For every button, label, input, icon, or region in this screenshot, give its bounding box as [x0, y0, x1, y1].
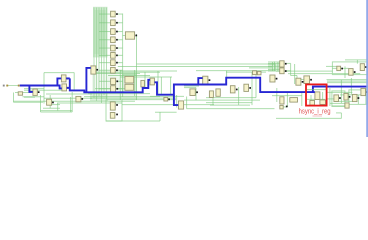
svg-text:hsync_i_reg: hsync_i_reg — [299, 108, 331, 115]
